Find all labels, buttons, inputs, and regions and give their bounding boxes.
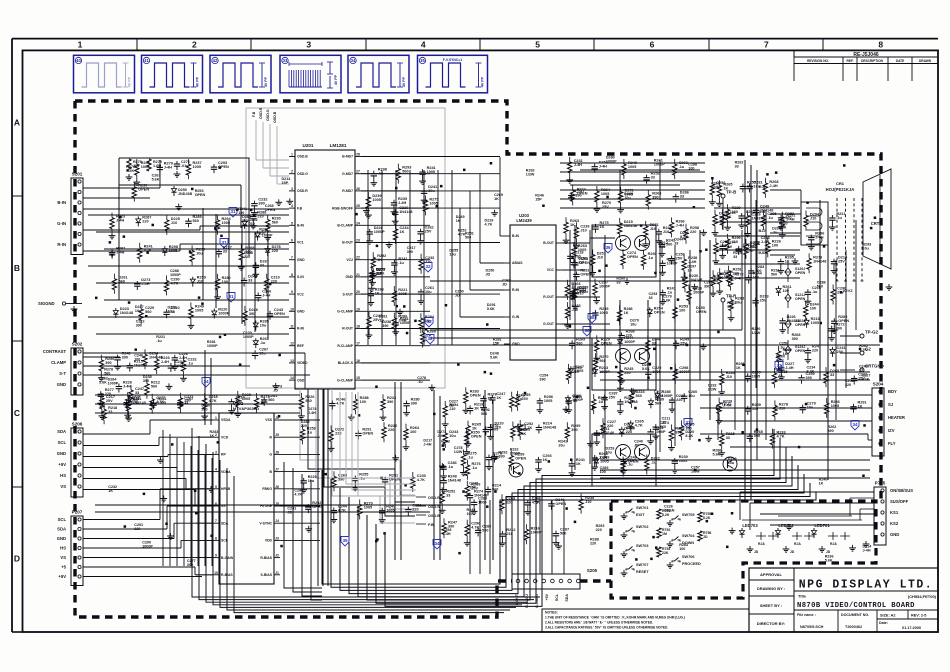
U202 pin 14 V-SYNC — [274, 522, 280, 524]
svg-text:220: 220 — [134, 527, 140, 531]
svg-text:33: 33 — [616, 280, 620, 284]
U202 pin 9 B-GAIN — [213, 557, 219, 559]
svg-text:J10: J10 — [597, 256, 603, 260]
svg-text:390: 390 — [411, 402, 417, 406]
svg-text:VS: VS — [60, 484, 66, 489]
svg-text:B-OUT: B-OUT — [543, 241, 555, 245]
svg-text:100: 100 — [679, 547, 685, 551]
svg-text:1000P: 1000P — [374, 230, 385, 234]
resistor R753 — [657, 547, 661, 557]
svg-text:GND: GND — [57, 382, 66, 387]
U203 pin 1 B-IN — [504, 235, 510, 237]
wire S201 aux — [83, 187, 160, 189]
svg-text:.1u: .1u — [448, 465, 454, 469]
connector S201 — [71, 178, 83, 255]
svg-text:HS: HS — [60, 546, 66, 551]
svg-text:25V: 25V — [425, 230, 432, 234]
svg-text:390: 390 — [187, 563, 193, 567]
svg-text:18: 18 — [356, 325, 360, 329]
U203 pin 9 B-OUT — [556, 242, 562, 244]
svg-text:1005: 1005 — [625, 193, 633, 197]
wire OSD bundle — [300, 389, 415, 495]
resistor R751 — [657, 509, 661, 519]
transistor Q25 — [616, 445, 631, 460]
U202 pin 15 HTONE — [274, 505, 280, 507]
svg-text:33: 33 — [649, 296, 653, 300]
svg-text:4V PP: 4V PP — [196, 76, 200, 87]
svg-text:OPEN: OPEN — [627, 255, 638, 259]
svg-text:OPEN: OPEN — [555, 502, 566, 506]
reference balloon 31 — [229, 208, 237, 218]
switch SW707 RESET — [626, 568, 629, 570]
svg-text:REF: REF — [297, 344, 304, 348]
svg-text:OPEN: OPEN — [696, 310, 707, 314]
svg-text:OSD.B: OSD.B — [273, 111, 277, 123]
svg-text:J-4H: J-4H — [863, 548, 871, 552]
svg-text:7: 7 — [764, 40, 769, 50]
svg-text:.1u: .1u — [779, 346, 785, 350]
svg-text:BLACK-S: BLACK-S — [338, 361, 354, 365]
U201 pin 2 OSD.G — [289, 173, 295, 175]
svg-text:21: 21 — [356, 273, 360, 277]
svg-text:220: 220 — [690, 230, 696, 234]
svg-text:OPEN: OPEN — [312, 505, 323, 509]
svg-text:OPEN: OPEN — [274, 312, 285, 316]
svg-text:8.2K: 8.2K — [685, 434, 693, 438]
svg-text:C: C — [14, 408, 20, 418]
test point TP-G2 — [860, 334, 864, 338]
svg-text:2: 2 — [192, 40, 197, 50]
svg-text:220: 220 — [388, 428, 394, 432]
svg-text:100: 100 — [724, 274, 730, 278]
svg-text:OSD.G: OSD.G — [297, 172, 308, 176]
svg-text:10: 10 — [214, 571, 218, 575]
U203 pin 5 GND — [504, 343, 510, 345]
notes block — [542, 609, 749, 632]
wire switch panel to P705 — [742, 519, 862, 521]
svg-text:.1u: .1u — [772, 231, 778, 235]
svg-text:8: 8 — [291, 273, 293, 277]
sheet border frame — [12, 38, 938, 40]
U201 pin 6 VC1 — [289, 242, 295, 244]
svg-text:R-OUT: R-OUT — [543, 295, 555, 299]
svg-text:25: 25 — [356, 204, 360, 208]
svg-text:390: 390 — [249, 312, 255, 316]
svg-text:560: 560 — [236, 400, 242, 404]
svg-text:J01: J01 — [133, 164, 139, 168]
svg-text:OPEN: OPEN — [795, 349, 806, 353]
svg-text:IZV: IZV — [888, 428, 895, 433]
CRT funnel — [863, 169, 891, 269]
gray sub-board outline around U201 — [246, 108, 445, 388]
svg-text:13: 13 — [290, 359, 294, 363]
wire top center — [580, 169, 700, 171]
svg-text:OPEN: OPEN — [470, 393, 481, 397]
svg-text:100: 100 — [679, 308, 685, 312]
svg-text:1005: 1005 — [195, 308, 203, 312]
svg-text:390: 390 — [571, 428, 577, 432]
svg-text:1: 1 — [291, 153, 293, 157]
waveform box 40 — [74, 55, 135, 93]
svg-text:10u: 10u — [260, 324, 267, 328]
svg-text:J-4H: J-4H — [116, 251, 124, 255]
U201 pin 14 OSD — [289, 379, 295, 381]
svg-text:5.6K: 5.6K — [518, 432, 526, 436]
svg-text:R-IN: R-IN — [512, 288, 520, 292]
svg-text:560: 560 — [104, 372, 110, 376]
wire top center horiz — [560, 162, 705, 164]
transistor Q26 — [635, 445, 650, 460]
svg-text:G-IN: G-IN — [57, 221, 66, 226]
svg-text:6: 6 — [291, 239, 293, 243]
resistor R752 — [657, 528, 661, 538]
U201 pin 16 BLACK-S — [355, 362, 361, 364]
U203 pin 8 VCC — [556, 269, 562, 271]
net OSD.G — [269, 124, 271, 176]
svg-text:390: 390 — [258, 202, 264, 206]
svg-text:25V: 25V — [602, 205, 609, 209]
svg-text:33: 33 — [735, 165, 739, 169]
svg-text:1K: 1K — [496, 396, 501, 400]
reference balloon 34 — [433, 540, 441, 550]
svg-text:GND: GND — [297, 310, 305, 314]
svg-text:2.ALL RESISTORS ARE ' 1/8 WATT: 2.ALL RESISTORS ARE ' 1/8 WATT ' E- ' ' … — [545, 621, 653, 625]
connector S204 — [872, 388, 884, 456]
svg-text:220: 220 — [626, 334, 632, 338]
svg-text:F.B: F.B — [252, 111, 256, 117]
reference balloon 36 — [604, 244, 612, 254]
svg-text:33: 33 — [674, 241, 678, 245]
U202 pin 19 R — [274, 436, 280, 438]
svg-text:1N4148: 1N4148 — [448, 479, 461, 483]
svg-text:R-BIAS: R-BIAS — [260, 556, 272, 560]
svg-text:42: 42 — [213, 58, 218, 63]
svg-text:CLAMP: CLAMP — [51, 360, 66, 365]
svg-text:3: 3 — [291, 187, 293, 191]
resistor R755 — [698, 512, 702, 522]
reference balloon 33 — [684, 419, 692, 429]
svg-text:J4: J4 — [275, 519, 279, 523]
svg-text:10u: 10u — [735, 301, 742, 305]
svg-text:VSS: VSS — [265, 418, 273, 422]
svg-text:4.7K: 4.7K — [209, 399, 217, 403]
svg-text:J-4H: J-4H — [423, 442, 431, 446]
svg-text:10u: 10u — [449, 252, 456, 256]
resistor R275 — [147, 159, 151, 171]
svg-text:1005: 1005 — [628, 165, 636, 169]
U201 pin 19 G-CLAMP — [355, 310, 361, 312]
svg-text:4: 4 — [215, 468, 217, 472]
svg-text:OSD.G: OSD.G — [266, 109, 270, 121]
svg-text:30: 30 — [584, 328, 590, 333]
svg-text:1N4148: 1N4148 — [149, 355, 162, 359]
ground — [794, 258, 796, 261]
svg-text:7: 7 — [215, 519, 217, 523]
svg-text:12: 12 — [290, 342, 294, 346]
switch SW701 EXIT — [626, 511, 629, 513]
svg-text:1K: 1K — [858, 405, 863, 409]
U201 pin 4 F.B — [289, 207, 295, 209]
U201 pin 28 B-MD7 — [355, 156, 361, 158]
svg-text:1N4148: 1N4148 — [624, 224, 637, 228]
svg-text:1K: 1K — [375, 292, 380, 296]
svg-text:4V PP: 4V PP — [128, 76, 132, 87]
svg-text:1000P: 1000P — [142, 545, 153, 549]
svg-text:G-CLAMP: G-CLAMP — [337, 310, 354, 314]
transistor pair LED701 driver — [828, 532, 838, 540]
svg-text:390: 390 — [792, 337, 798, 341]
reference balloon 32 — [426, 335, 434, 345]
svg-text:1K: 1K — [570, 223, 575, 227]
svg-text:1K: 1K — [494, 197, 499, 201]
svg-text:J-4H: J-4H — [262, 294, 270, 298]
svg-text:220: 220 — [412, 508, 418, 512]
U201 pin 11 R-IN — [289, 328, 295, 330]
wire bottom center risers — [469, 500, 471, 574]
svg-text:Title: Title — [798, 594, 807, 599]
svg-text:23: 23 — [356, 239, 360, 243]
wire U203 outputs — [562, 242, 590, 244]
svg-text:SJ: SJ — [888, 402, 894, 407]
U202 pin 4 VDDA — [213, 471, 219, 473]
svg-text:390: 390 — [704, 285, 710, 289]
svg-text:VCC: VCC — [547, 268, 555, 272]
svg-text:S204: S204 — [873, 382, 884, 387]
svg-text:F-V.SYNC=1: F-V.SYNC=1 — [443, 58, 462, 62]
svg-text:SIZE: A2: SIZE: A2 — [880, 614, 895, 618]
svg-text:S202: S202 — [72, 342, 83, 347]
wire right-of-U202 verticals — [394, 382, 396, 560]
svg-text:SHEET BY :: SHEET BY : — [760, 603, 782, 608]
svg-text:32: 32 — [427, 336, 433, 341]
svg-text:560: 560 — [151, 385, 157, 389]
svg-text:J-4H: J-4H — [398, 319, 406, 323]
svg-text:1000P: 1000P — [170, 273, 181, 277]
U203 pin 7 R-OUT — [556, 296, 562, 298]
svg-text:25V: 25V — [609, 396, 616, 400]
svg-text:VDD: VDD — [265, 539, 273, 543]
svg-text:J10: J10 — [495, 425, 501, 429]
svg-text:.1u: .1u — [627, 463, 633, 467]
svg-text:SDA: SDA — [565, 594, 569, 602]
svg-text:16: 16 — [356, 359, 360, 363]
wire right bundle — [744, 160, 746, 500]
switch SW702 — [626, 530, 629, 532]
svg-text:15: 15 — [356, 376, 360, 380]
waveform box 41 — [142, 55, 203, 93]
U201 pin 10 GND — [289, 310, 295, 312]
svg-text:SW705: SW705 — [682, 513, 694, 517]
svg-text:6: 6 — [650, 40, 655, 50]
amplifier U203 LM2439 — [510, 225, 556, 360]
svg-text:.1u: .1u — [727, 244, 733, 248]
svg-text:J-4H: J-4H — [164, 165, 172, 169]
svg-text:1005: 1005 — [158, 401, 166, 405]
svg-text:.1u: .1u — [679, 165, 685, 169]
svg-text:KS2: KS2 — [890, 521, 899, 526]
svg-text:J-4H: J-4H — [437, 434, 445, 438]
svg-text:10u: 10u — [425, 290, 432, 294]
svg-text:10u: 10u — [630, 323, 637, 327]
svg-text:J-4H: J-4H — [599, 456, 607, 460]
svg-text:24: 24 — [356, 221, 360, 225]
U201 pin 3 OSD.R — [289, 190, 295, 192]
svg-text:LM1281: LM1281 — [330, 143, 347, 148]
transistor pair LED703 driver — [756, 532, 766, 540]
svg-text:1K: 1K — [736, 366, 741, 370]
svg-text:.1u: .1u — [648, 256, 654, 260]
svg-text:5.6K: 5.6K — [99, 380, 107, 384]
svg-text:390: 390 — [136, 324, 142, 328]
svg-text:1000P: 1000P — [207, 344, 218, 348]
svg-text:B-IN: B-IN — [57, 200, 66, 205]
svg-text:3: 3 — [215, 450, 217, 454]
svg-text:J-4H: J-4H — [308, 411, 316, 415]
svg-text:J-4H: J-4H — [161, 360, 169, 364]
svg-text:15P: 15P — [282, 181, 289, 185]
microcontroller U202 MTV302ED — [219, 413, 274, 584]
svg-text:1: 1 — [215, 416, 217, 420]
svg-text:10u: 10u — [308, 479, 315, 483]
svg-text:4.7K: 4.7K — [485, 223, 493, 227]
U202 pin 20 VSS — [274, 419, 280, 421]
svg-text:1N4148: 1N4148 — [543, 426, 556, 430]
svg-text:HOJ(PE21KJA: HOJ(PE21KJA — [826, 187, 855, 192]
svg-text:1005: 1005 — [831, 404, 839, 408]
wire left lower runs — [95, 394, 300, 396]
svg-text:HS: HS — [60, 473, 66, 478]
U203 pin 3 R-IN — [504, 289, 510, 291]
connector S205 — [512, 574, 580, 589]
svg-text:SDA: SDA — [221, 521, 229, 525]
svg-text:GND: GND — [890, 532, 899, 537]
extra ground symbols — [589, 441, 591, 444]
svg-text:SDA: SDA — [57, 527, 66, 532]
svg-text:7: 7 — [291, 256, 293, 260]
svg-text:TP-G2: TP-G2 — [865, 330, 878, 335]
wire left leg bundle — [192, 428, 540, 597]
svg-text:S205: S205 — [587, 568, 598, 573]
wire emitter loop G — [592, 338, 656, 390]
svg-text:560: 560 — [771, 273, 777, 277]
svg-text:25V: 25V — [837, 350, 844, 354]
svg-text:25V: 25V — [838, 260, 845, 264]
U201 pin 20 S-OUT — [355, 293, 361, 295]
U202 pin 2 VCD — [213, 436, 219, 438]
svg-text:5.6K: 5.6K — [642, 367, 650, 371]
svg-text:GND: GND — [57, 536, 66, 541]
svg-text:560: 560 — [145, 310, 151, 314]
svg-text:560: 560 — [272, 221, 278, 225]
svg-text:390: 390 — [806, 376, 812, 380]
svg-text:DIRECTOR BY:: DIRECTOR BY: — [757, 621, 786, 626]
svg-text:560: 560 — [636, 394, 642, 398]
svg-text:1000P: 1000P — [662, 394, 673, 398]
dashed control-panel box — [611, 501, 876, 598]
waveform box 42 — [210, 55, 271, 93]
svg-text:U201: U201 — [303, 143, 314, 148]
svg-text:SW707: SW707 — [636, 563, 648, 567]
svg-text:10u: 10u — [558, 444, 565, 448]
svg-text:CRT: CRT — [871, 221, 880, 226]
svg-text:4.7K: 4.7K — [458, 233, 466, 237]
svg-text:19: 19 — [356, 307, 360, 311]
U202 pin 5 HFLB — [213, 488, 219, 490]
svg-text:N870B VIDEO/CONTROL BOARD: N870B VIDEO/CONTROL BOARD — [797, 602, 915, 610]
svg-text:VIDEO: VIDEO — [297, 361, 308, 365]
svg-text:1K: 1K — [400, 230, 405, 234]
svg-text:A: A — [14, 117, 20, 127]
reference balloon 38 — [588, 314, 596, 324]
svg-text:J10: J10 — [663, 230, 669, 234]
U203 pin 6 G-OUT — [556, 323, 562, 325]
svg-text:4: 4 — [421, 40, 426, 50]
svg-text:5.6K: 5.6K — [490, 355, 498, 359]
transistor Q27 — [723, 457, 737, 471]
svg-text:REF.: REF. — [847, 59, 854, 63]
svg-text:DRAWING BY :: DRAWING BY : — [757, 586, 785, 591]
svg-text:RJA: RJA — [758, 542, 765, 546]
svg-text:9: 9 — [291, 290, 293, 294]
svg-text:G: G — [269, 453, 272, 457]
svg-text:4V PP: 4V PP — [481, 76, 485, 87]
svg-text:1005: 1005 — [372, 198, 380, 202]
net F.B — [255, 120, 257, 160]
svg-text:8.2K: 8.2K — [662, 513, 670, 517]
svg-text:5: 5 — [535, 40, 540, 50]
svg-text:10u: 10u — [135, 309, 142, 313]
U201 pin 5 B-IN — [289, 224, 295, 226]
wire video out run — [430, 280, 718, 282]
svg-text:1000P: 1000P — [624, 340, 635, 344]
svg-text:.1u: .1u — [398, 261, 404, 265]
svg-text:VC2: VC2 — [346, 258, 353, 262]
wire U201 bottom bus — [317, 389, 319, 586]
svg-text:.1u: .1u — [598, 400, 604, 404]
svg-text:1K: 1K — [727, 215, 732, 219]
svg-text:33: 33 — [733, 255, 737, 259]
svg-text:5.6K: 5.6K — [713, 453, 721, 457]
svg-text:22K: 22K — [662, 551, 669, 555]
diode D250 — [173, 186, 175, 189]
svg-text:33: 33 — [283, 58, 288, 63]
U203 pin 4 G-IN — [504, 316, 510, 318]
svg-text:1000P: 1000P — [108, 382, 119, 386]
svg-text:100: 100 — [134, 357, 140, 361]
svg-text:J-4H: J-4H — [769, 184, 777, 188]
wire right verticals — [755, 200, 757, 388]
svg-text:JD: JD — [662, 421, 667, 425]
connector P705 — [874, 487, 886, 545]
svg-text:8: 8 — [215, 536, 217, 540]
svg-text:1/2W: 1/2W — [708, 388, 717, 392]
svg-text:1K: 1K — [576, 462, 581, 466]
svg-text:390: 390 — [184, 399, 190, 403]
ground — [865, 541, 867, 544]
wire U201 right pin stubs — [361, 156, 430, 158]
svg-text:1M: 1M — [662, 532, 667, 536]
net OSD.R — [262, 122, 264, 168]
svg-text:REV: 2-5: REV: 2-5 — [911, 614, 926, 618]
resistor R276 — [127, 159, 131, 171]
svg-text:JD: JD — [790, 550, 795, 554]
transistor Q22 — [635, 236, 650, 251]
svg-text:11: 11 — [290, 325, 294, 329]
svg-text:8.2K: 8.2K — [776, 358, 784, 362]
svg-text:Date:: Date: — [879, 621, 888, 625]
svg-text:1: 1 — [78, 40, 83, 50]
wire bottom nested bus — [322, 470, 816, 584]
